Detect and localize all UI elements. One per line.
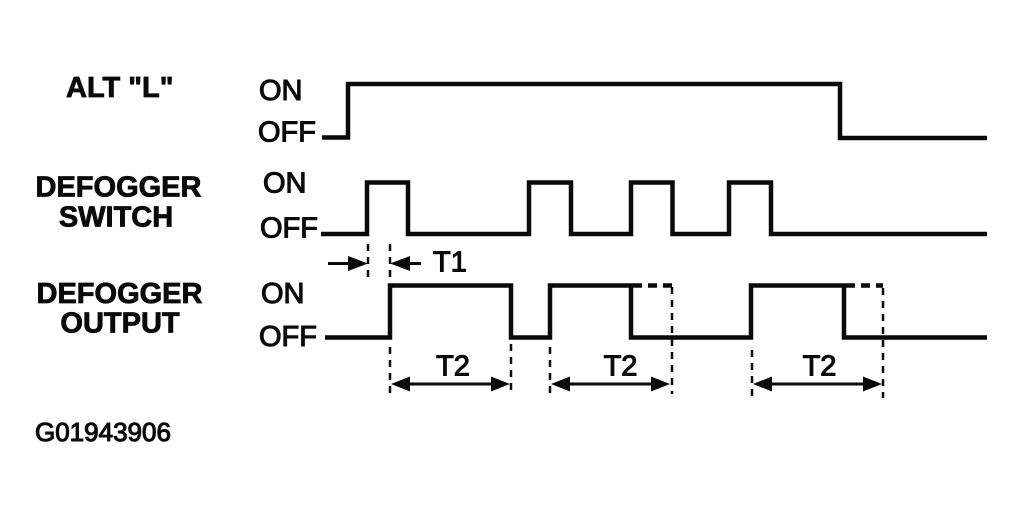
T2 second arrow [568, 383, 653, 386]
svg-text:ALT "L": ALT "L" [66, 72, 174, 104]
T1 dashed marker left [367, 244, 370, 278]
svg-text:DEFOGGER: DEFOGGER [37, 278, 203, 310]
svg-text:G01943906: G01943906 [35, 417, 171, 447]
wire output pulse3 dashed top [846, 283, 883, 288]
T1 left arrow [328, 262, 350, 265]
wire DEFOGGER OUTPUT waveform solid [325, 286, 987, 338]
svg-text:OUTPUT: OUTPUT [60, 308, 180, 340]
svg-text:T2: T2 [803, 351, 837, 383]
T2 first arrow [408, 383, 493, 386]
T1 dashed marker right [389, 244, 392, 280]
svg-text:T2: T2 [604, 351, 638, 383]
svg-text:ON: ON [263, 168, 307, 200]
svg-text:T2: T2 [436, 351, 470, 383]
wire ALT L waveform [322, 84, 987, 138]
wire DEFOGGER SWITCH waveform [321, 183, 987, 235]
svg-text:OFF: OFF [259, 321, 317, 353]
wire output pulse2 dashed fall [671, 287, 674, 394]
svg-text:ON: ON [259, 75, 303, 107]
svg-text:T1: T1 [433, 247, 467, 279]
wire output pulse3 dashed fall [882, 288, 885, 398]
svg-text:SWITCH: SWITCH [59, 202, 173, 234]
T2 third dashed left [751, 350, 754, 398]
T2 first dashed right [510, 344, 513, 396]
svg-text:OFF: OFF [258, 117, 316, 149]
T2 first dashed left [389, 347, 392, 396]
svg-text:ON: ON [261, 278, 305, 310]
wire output pulse2 dashed top [633, 283, 672, 288]
T1 right arrow [408, 262, 421, 265]
svg-text:DEFOGGER: DEFOGGER [36, 172, 202, 204]
T2 second dashed left [549, 347, 552, 396]
T2 third arrow [770, 383, 864, 386]
svg-text:OFF: OFF [260, 213, 318, 245]
